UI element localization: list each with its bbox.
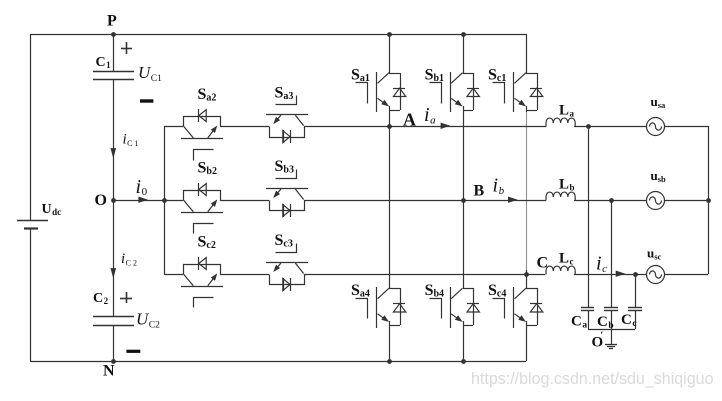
svg-text:N: N (103, 363, 115, 380)
svg-text:′: ′ (601, 331, 604, 342)
svg-text:O: O (95, 192, 107, 209)
svg-text:B: B (474, 183, 485, 200)
svg-text:P: P (107, 13, 117, 30)
svg-text:https://blog.csdn.net/sdu_shiq: https://blog.csdn.net/sdu_shiqiguo (471, 370, 714, 388)
svg-text:A: A (403, 110, 416, 130)
